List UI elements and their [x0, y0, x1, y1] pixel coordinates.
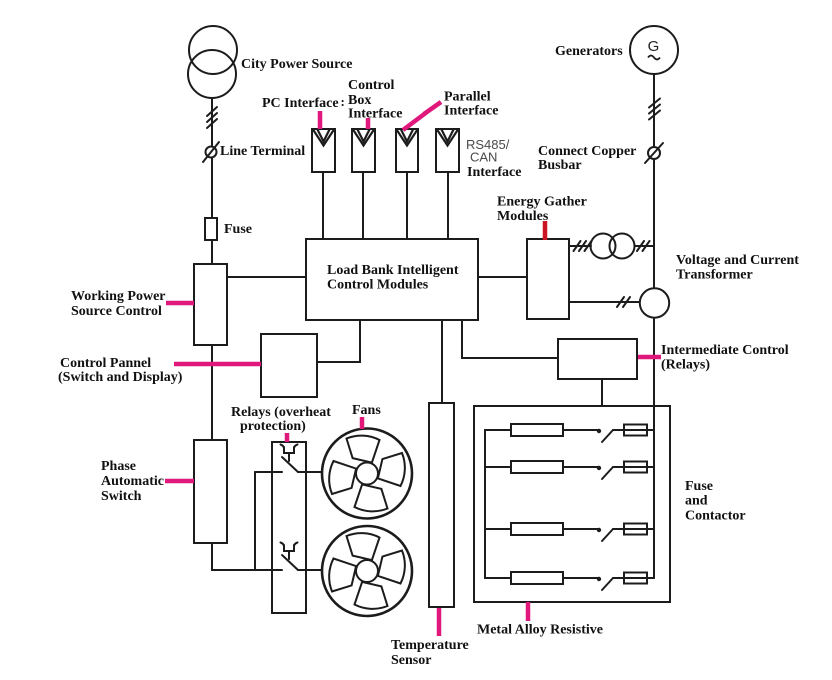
svg-text:Fuse: Fuse	[224, 222, 252, 237]
svg-text:Interface: Interface	[444, 104, 498, 119]
svg-text:Voltage and Current: Voltage and Current	[676, 253, 799, 268]
svg-text:Relays (overheat: Relays (overheat	[231, 405, 331, 420]
magenta pointer metal alloy	[526, 602, 531, 621]
interface box 3 parallel	[396, 129, 418, 172]
interface box 2 control box	[352, 129, 375, 172]
row 4 resistor branch	[485, 577, 511, 579]
svg-text:Metal Alloy Resistive: Metal Alloy Resistive	[477, 623, 603, 638]
magenta pointer temperature sensor	[437, 608, 442, 636]
svg-text:City Power Source: City Power Source	[241, 57, 352, 72]
current transformer circle	[640, 288, 669, 317]
fan 1	[322, 429, 412, 519]
wire from T1 down to fuse	[211, 98, 213, 218]
svg-text:PC Interface: PC Interface	[262, 96, 339, 111]
svg-text:Intermediate Control: Intermediate Control	[661, 343, 789, 358]
red pointer energy gather	[543, 221, 548, 240]
voltage transformer circles	[591, 234, 616, 259]
connect copper busbar terminal	[648, 147, 660, 159]
wire energy gather to current transformer	[569, 301, 640, 303]
svg-text:Busbar: Busbar	[538, 158, 582, 173]
svg-text:Control Modules: Control Modules	[327, 278, 429, 293]
wire load bank to energy gather	[478, 276, 527, 278]
generator G1	[630, 26, 678, 74]
row 1 resistor branch	[485, 429, 511, 431]
generator bus wire	[653, 74, 655, 289]
magenta pointer control pannel	[174, 362, 261, 367]
svg-text:Automatic: Automatic	[101, 474, 164, 489]
phase automatic switch box	[194, 440, 227, 543]
svg-text:Phase: Phase	[101, 459, 136, 474]
relay 1 wire to fan 1	[298, 471, 322, 473]
interface box 4 RS485	[436, 129, 459, 172]
wires interfaces to load bank	[322, 172, 324, 239]
wire phase switch to fan circuit	[212, 543, 282, 570]
svg-text:Working Power: Working Power	[71, 289, 166, 304]
svg-text:G: G	[648, 38, 660, 55]
energy gather modules box	[527, 239, 569, 319]
relay 2 switch blade	[282, 555, 298, 570]
wire load bank to temperature sensor	[441, 320, 443, 403]
interface box 1 PC	[312, 129, 335, 172]
magenta pointer relays	[285, 433, 290, 442]
svg-text::: :	[341, 94, 345, 109]
relay 2 wire to fan 2	[298, 569, 322, 571]
svg-text:Fans: Fans	[352, 403, 381, 418]
svg-text:(Switch and Display): (Switch and Display)	[58, 370, 183, 385]
magenta pointer control box interface	[366, 118, 371, 129]
wire load bank to intermediate control	[462, 320, 558, 358]
hash marks	[574, 241, 581, 251]
magenta pointer intermediate control	[638, 355, 661, 360]
wire intermediate control to contactor box	[601, 379, 603, 406]
working power source control box	[194, 264, 227, 345]
intermediate control relays box	[558, 339, 637, 379]
magenta pointer PC interface	[318, 111, 323, 129]
load bank intelligent control modules box	[306, 239, 478, 320]
svg-text:and: and	[685, 494, 708, 509]
svg-text:Sensor: Sensor	[391, 653, 431, 668]
relays overheat box	[272, 442, 306, 613]
wire voltage transformer to bus	[635, 245, 655, 247]
svg-text:Line Terminal: Line Terminal	[220, 144, 305, 159]
wire energy gather to voltage transformer	[569, 245, 591, 247]
svg-text:Energy Gather: Energy Gather	[497, 195, 587, 210]
svg-text:Temperature: Temperature	[391, 638, 469, 653]
wire fuse to working power box	[211, 240, 213, 264]
relay 1 switch blade	[282, 457, 298, 472]
svg-text:CAN: CAN	[470, 150, 497, 165]
wire working power box down to phase switch	[211, 345, 213, 440]
magenta pointer phase switch	[165, 479, 194, 484]
svg-text:Generators: Generators	[555, 44, 623, 59]
row 3 resistor branch	[485, 528, 511, 530]
svg-text:protection): protection)	[240, 419, 306, 434]
hash marks	[617, 297, 624, 307]
svg-text:Control Pannel: Control Pannel	[60, 356, 151, 371]
svg-text:Parallel: Parallel	[444, 90, 491, 105]
svg-text:Contactor: Contactor	[685, 509, 746, 524]
wire control pannel to load bank	[317, 320, 360, 362]
generator sine symbol	[648, 56, 660, 60]
transformer T1 City Power Source	[189, 26, 237, 74]
svg-text:Load Bank Intelligent: Load Bank Intelligent	[327, 263, 459, 278]
hash marks	[637, 241, 644, 251]
magenta pointer fans	[360, 417, 365, 429]
fuse and contactor outer box	[474, 406, 670, 602]
svg-text:Transformer: Transformer	[676, 268, 753, 283]
wire bracket to relay contacts	[254, 472, 256, 570]
hash marks on city line	[207, 107, 217, 116]
left bus inside contactor box	[484, 430, 486, 578]
relay 1 coil	[281, 445, 298, 462]
wire working power box to load bank	[227, 276, 306, 278]
fuse F1	[205, 218, 217, 240]
svg-text:(Relays): (Relays)	[661, 358, 710, 373]
svg-text:Switch: Switch	[101, 489, 142, 504]
svg-text:Fuse: Fuse	[685, 479, 713, 494]
line terminal LT	[206, 147, 217, 158]
control pannel box	[261, 334, 317, 397]
row 2 resistor branch	[485, 466, 511, 468]
svg-text:Interface: Interface	[467, 165, 521, 180]
svg-text:Connect Copper: Connect Copper	[538, 144, 636, 159]
relay 2 coil	[281, 543, 298, 560]
svg-text:Control: Control	[348, 78, 395, 93]
svg-text:Source Control: Source Control	[71, 304, 162, 319]
fan 2	[322, 526, 412, 616]
temperature sensor bar	[429, 403, 454, 607]
magenta pointer working power	[166, 301, 194, 306]
hash marks on generator bus	[649, 99, 660, 108]
svg-text:Interface: Interface	[348, 107, 402, 122]
svg-text:Modules: Modules	[497, 209, 549, 224]
magenta pointer parallel interface	[403, 102, 441, 130]
